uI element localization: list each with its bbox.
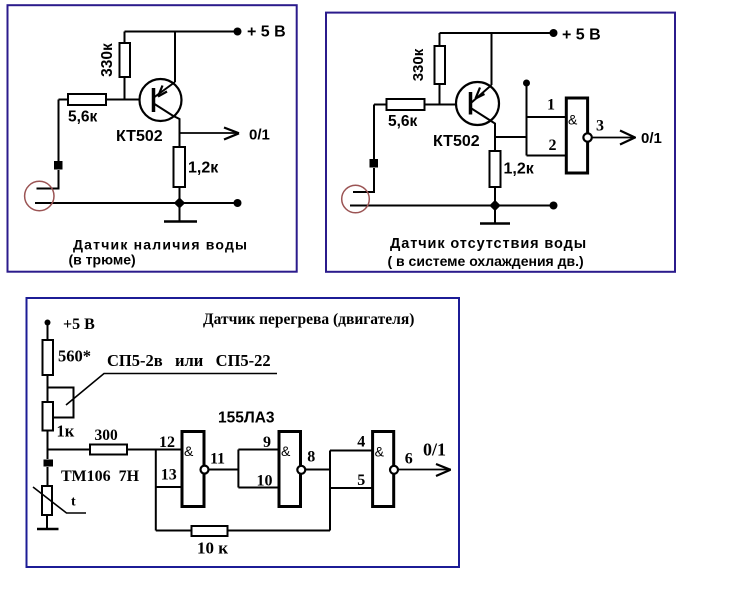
svg-text:3: 3 xyxy=(596,118,604,135)
svg-text:9: 9 xyxy=(263,434,271,451)
svg-text:8: 8 xyxy=(307,449,315,466)
svg-text:1к: 1к xyxy=(57,422,75,441)
svg-text:12: 12 xyxy=(159,434,175,451)
svg-text:0/1: 0/1 xyxy=(423,440,446,460)
svg-text:&: & xyxy=(184,443,194,459)
svg-text:5,6к: 5,6к xyxy=(388,113,418,130)
svg-text:Датчик отсутствия воды: Датчик отсутствия воды xyxy=(390,236,587,252)
svg-text:1,2к: 1,2к xyxy=(504,161,535,178)
svg-text:( в системе охлаждения дв.): ( в системе охлаждения дв.) xyxy=(388,253,584,269)
svg-text:0/1: 0/1 xyxy=(249,127,270,144)
svg-text:&: & xyxy=(281,443,291,459)
svg-text:10: 10 xyxy=(257,473,273,490)
svg-text:560*: 560* xyxy=(58,347,91,366)
svg-text:300: 300 xyxy=(95,427,119,444)
svg-text:Датчик перегрева (двигателя): Датчик перегрева (двигателя) xyxy=(203,311,414,328)
svg-text:5: 5 xyxy=(357,472,365,489)
svg-text:5,6к: 5,6к xyxy=(68,109,98,126)
svg-text:ТМ106 7Н: ТМ106 7Н xyxy=(61,468,140,485)
svg-text:0/1: 0/1 xyxy=(641,130,662,147)
svg-text:10 к: 10 к xyxy=(197,539,228,558)
svg-text:+ 5 В: + 5 В xyxy=(562,27,601,44)
svg-text:+ 5 В: + 5 В xyxy=(247,24,286,41)
svg-text:КТ502: КТ502 xyxy=(433,133,480,150)
svg-text:330к: 330к xyxy=(410,48,427,81)
svg-text:6: 6 xyxy=(405,451,413,468)
svg-text:13: 13 xyxy=(161,467,177,484)
svg-text:t: t xyxy=(71,495,76,510)
svg-text:1,2к: 1,2к xyxy=(188,160,219,177)
svg-text:КТ502: КТ502 xyxy=(116,128,163,145)
svg-text:4: 4 xyxy=(357,434,365,451)
svg-text:2: 2 xyxy=(549,137,557,154)
svg-text:&: & xyxy=(568,111,578,127)
svg-text:155ЛА3: 155ЛА3 xyxy=(218,410,275,427)
svg-text:&: & xyxy=(375,443,385,459)
svg-text:(в трюме): (в трюме) xyxy=(69,252,136,268)
svg-text:330к: 330к xyxy=(99,43,116,77)
svg-text:1: 1 xyxy=(547,97,555,114)
svg-text:СП5-2в или СП5-22: СП5-2в или СП5-22 xyxy=(107,351,271,370)
svg-text:+5 В: +5 В xyxy=(63,316,95,333)
svg-text:Датчик наличия воды: Датчик наличия воды xyxy=(73,237,248,253)
svg-text:11: 11 xyxy=(210,451,225,468)
